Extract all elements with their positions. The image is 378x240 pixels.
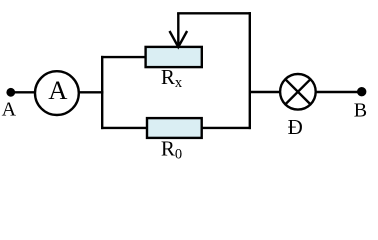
rheostat Rx wiper arrow shaft (177, 13, 179, 47)
lamp Đ (circle) (280, 74, 316, 110)
svg-text:R0: R0 (161, 137, 182, 163)
lamp Đ cross line 1 (285, 79, 310, 104)
rheostat Rx (body) (146, 47, 202, 67)
wire lamp to node B (316, 91, 362, 93)
node B (357, 87, 366, 96)
svg-text:A: A (48, 75, 68, 105)
wire node A to ammeter (11, 91, 35, 93)
wire left junction to R0 (101, 127, 148, 129)
wire right junction to lamp (250, 91, 280, 93)
wire right vertical (249, 12, 251, 129)
resistor R0 (body) (147, 118, 202, 138)
wire wiper to top (177, 12, 251, 14)
node A (6, 88, 15, 97)
svg-text:Đ: Đ (288, 115, 303, 139)
svg-text:B: B (354, 100, 367, 122)
svg-text:A: A (2, 98, 17, 120)
wire left junction to Rx (101, 56, 146, 58)
rheostat Rx wiper arrowhead (170, 31, 188, 47)
wire ammeter to left junction (79, 91, 103, 93)
wire left junction vertical (101, 56, 103, 129)
ammeter A (circle) (35, 71, 79, 115)
wire R0 to right junction (202, 127, 251, 129)
svg-text:Rx: Rx (161, 65, 183, 91)
lamp Đ cross line 2 (285, 79, 310, 104)
